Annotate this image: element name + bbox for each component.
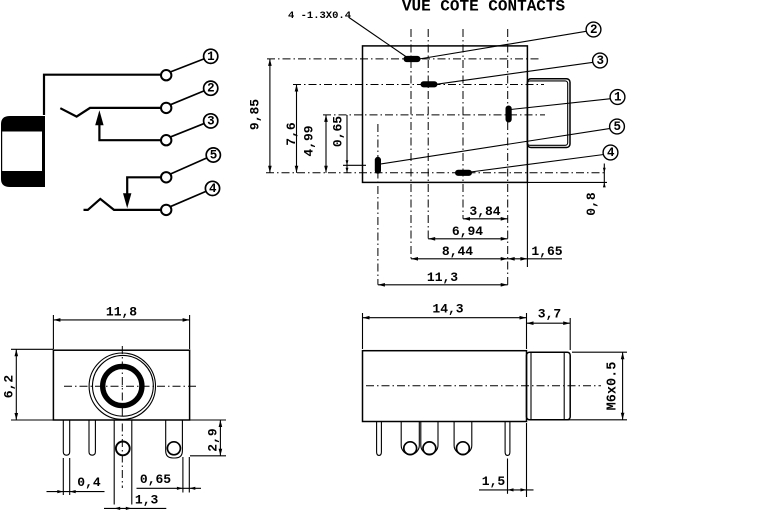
extension line pad5 center [343, 164, 366, 166]
contact 1 [161, 70, 171, 80]
front center pin [114, 420, 132, 505]
svg-text:3,84: 3,84 [469, 204, 500, 219]
threaded barrel side view [527, 352, 571, 420]
leader pad4 to number 4 [471, 155, 604, 173]
svg-text:14,3: 14,3 [432, 302, 463, 317]
dimension 6,94 [428, 224, 508, 241]
dimension 3,7 [527, 307, 571, 351]
jack plug symbol J1 [1, 116, 45, 187]
wire tip-to-contact-1 [44, 75, 161, 115]
switch lever contact 4 [84, 199, 162, 210]
svg-text:4,99: 4,99 [302, 125, 317, 156]
side pin c [421, 422, 438, 455]
pin number 1 [204, 49, 218, 64]
contact pad 2 [404, 56, 420, 61]
contact 3 [161, 135, 171, 145]
leader to pin number 4 [170, 191, 207, 207]
circled number 3 [593, 53, 608, 68]
svg-text:3: 3 [596, 54, 604, 68]
circled number 1 [610, 90, 625, 105]
top view body outline [363, 46, 528, 183]
leader to pin number 5 [170, 158, 207, 175]
svg-text:1,65: 1,65 [531, 244, 562, 259]
barrel nut outer circle [89, 353, 155, 419]
side pin b hole [404, 442, 417, 455]
side pin b [401, 422, 419, 455]
svg-text:1,3: 1,3 [135, 493, 159, 508]
jack bore ring [103, 366, 142, 405]
side pin d hole [457, 442, 470, 455]
svg-text:11,8: 11,8 [106, 304, 137, 319]
side view center line [366, 385, 601, 387]
contact pad 3 [421, 82, 437, 87]
side pin e [505, 422, 510, 456]
svg-text:2: 2 [590, 23, 598, 37]
center line horizontal pads 4 and 5 [266, 172, 607, 174]
leader to pin number 1 [170, 59, 205, 73]
leader from label to pad 2 [349, 18, 407, 58]
dimension 0,65 (top view) [331, 115, 349, 173]
svg-text:6,2: 6,2 [1, 375, 16, 399]
svg-text:0,4: 0,4 [77, 475, 101, 490]
svg-text:9,85: 9,85 [248, 99, 263, 130]
svg-text:0,65: 0,65 [140, 472, 171, 487]
side pin d [454, 422, 472, 455]
svg-text:4 -1.3X0.4: 4 -1.3X0.4 [288, 10, 351, 22]
dimension 6,2 [1, 349, 53, 420]
front right pin hole [167, 442, 180, 455]
svg-text:8,44: 8,44 [442, 244, 473, 259]
center line vertical pad1 [507, 29, 509, 285]
dimension 1,3 [104, 493, 166, 511]
dimension 3,84 [463, 204, 508, 221]
leader pad5 to number 5 [381, 128, 611, 164]
extension line body bottom edge right [527, 181, 607, 183]
center line vertical pad2 [410, 29, 412, 259]
wire contact 3 with normally-closed arrow [95, 110, 161, 140]
barrel outline top view [527, 79, 570, 148]
svg-text:VUE COTE CONTACTS: VUE COTE CONTACTS [402, 0, 566, 15]
leader pad2 to number 2 [419, 31, 587, 59]
center line horizontal pad1 [323, 114, 545, 116]
extension line body right edge down [526, 182, 528, 267]
pin number 2 [204, 81, 218, 96]
center line vertical pad5 [377, 124, 379, 285]
circled number 5 [610, 119, 625, 134]
leader to pin number 2 [170, 91, 205, 105]
svg-text:3: 3 [207, 114, 215, 128]
dimension 4,99 [302, 115, 328, 173]
svg-text:3,7: 3,7 [538, 307, 561, 322]
svg-text:5: 5 [613, 120, 621, 134]
contact pad 4 [456, 170, 472, 175]
contact pad 1 [506, 106, 511, 122]
dimension 7,6 [284, 85, 299, 173]
barrel nut inner circle [93, 355, 154, 416]
pin number 3 [204, 114, 218, 129]
circled number 2 [586, 22, 601, 37]
dimension M6x0.5 [530, 352, 627, 420]
switch lever contact 2 [60, 108, 161, 117]
front right pin [166, 420, 183, 458]
leader to pin number 3 [170, 123, 205, 137]
svg-text:7,6: 7,6 [284, 122, 299, 146]
dimension 1,5 [479, 423, 534, 497]
svg-text:2,9: 2,9 [205, 428, 220, 452]
dimension 8,44 [411, 244, 508, 261]
contact pad 5 [375, 157, 380, 173]
wire contact 5 with arrow onto lever 4 [123, 177, 161, 208]
contact 2 [161, 103, 171, 113]
dimension 1,65 [508, 244, 563, 261]
dimension 0,65 (front view) [137, 457, 202, 493]
leader pad1 to number 1 [511, 99, 611, 110]
front view center line vertical [121, 346, 123, 488]
leader pad3 to number 3 [436, 62, 593, 84]
center line horizontal pad2 [267, 58, 541, 60]
contact 5 [161, 172, 171, 182]
pin number 4 [205, 181, 219, 196]
center line horizontal pad3 [293, 84, 544, 86]
svg-text:1: 1 [614, 91, 622, 105]
svg-text:1,5: 1,5 [482, 474, 506, 489]
svg-text:2: 2 [207, 82, 215, 96]
side view body outline [363, 351, 527, 422]
svg-text:5: 5 [210, 149, 218, 163]
front pin 2 [89, 420, 95, 455]
dimension 2,9 [190, 420, 226, 456]
contact 4 [161, 205, 171, 215]
center line vertical pad4 [462, 29, 464, 219]
svg-text:0,65: 0,65 [331, 116, 346, 147]
side pin a [377, 422, 382, 456]
center line vertical pad3 [427, 29, 429, 239]
circled number 4 [603, 145, 618, 160]
svg-text:1: 1 [207, 50, 215, 64]
side pin c hole [423, 442, 436, 455]
dimension 11,3 [378, 270, 508, 287]
svg-text:6,94: 6,94 [452, 224, 483, 239]
svg-text:4: 4 [607, 146, 615, 160]
dimension 11,8 [53, 304, 189, 349]
front view center line horizontal [64, 385, 196, 387]
front pin 1 [63, 420, 69, 455]
pin number 5 [206, 148, 220, 163]
dimension 14,3 [363, 302, 527, 350]
front view body outline [53, 350, 189, 420]
svg-text:4: 4 [209, 182, 217, 196]
dimension 9,85 [248, 59, 272, 173]
svg-text:M6x0.5: M6x0.5 [606, 362, 621, 411]
front center pin hole [116, 442, 130, 456]
dimension 0,4 [47, 458, 105, 495]
dimension 0,8 [584, 164, 606, 216]
svg-text:11,3: 11,3 [427, 270, 458, 285]
svg-text:0,8: 0,8 [584, 192, 599, 216]
